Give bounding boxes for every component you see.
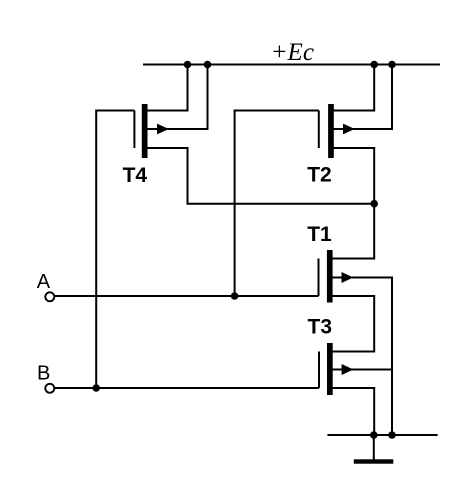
junction dot input B / T4 riser (92, 384, 100, 392)
wire T2 source to output node S (331, 148, 374, 204)
transistor T4 (134, 104, 168, 158)
transistor T1 (319, 250, 354, 303)
junction dot rail / T2 drain (370, 61, 378, 69)
wire T4 drain to +Ec rail (145, 65, 188, 111)
svg-text:T2: T2 (307, 164, 332, 187)
wire input B riser to T4 gate (96, 111, 134, 389)
transistor T2 (319, 104, 355, 158)
svg-text:T1: T1 (307, 223, 332, 246)
junction dot rail / T2 bulk (388, 61, 396, 69)
junction dot rail / T4 drain (184, 61, 192, 69)
wire ground rail (327, 434, 437, 436)
svg-text:A: A (37, 271, 51, 293)
ground (354, 435, 394, 464)
wire T2 drain to +Ec rail (331, 65, 374, 111)
svg-text:T3: T3 (308, 316, 333, 339)
wire +Ec power rail (143, 64, 440, 66)
junction dot ground rail / right column (388, 431, 396, 439)
wire input A riser to T2 gate (235, 111, 319, 297)
junction dot rail / T4 bulk (204, 61, 212, 69)
junction dot ground rail / T3 source (370, 431, 378, 439)
input terminal B (45, 384, 54, 393)
wire input B to T3 gate (55, 387, 320, 389)
svg-text:T4: T4 (123, 164, 148, 187)
svg-text:+Ec: +Ec (271, 39, 314, 66)
wire T2 bulk to +Ec rail (331, 65, 392, 130)
wire T3 source to ground rail (330, 388, 374, 435)
wire output node S to T1 drain (330, 204, 375, 259)
wire T1 source to T3 drain (330, 296, 375, 352)
transistor T3 (319, 343, 353, 395)
junction dot output node S (370, 200, 378, 208)
junction dot input A / T2 riser (231, 292, 239, 300)
wire T4 source to output node S (145, 148, 375, 204)
input terminal A (45, 292, 54, 301)
wire T1 bulk down to ground rail (330, 278, 392, 436)
wire input A to T1 gate (55, 295, 319, 297)
svg-text:B: B (37, 363, 50, 385)
wire T3 bulk to right column (330, 369, 392, 371)
wire T4 bulk to +Ec rail (145, 65, 208, 130)
